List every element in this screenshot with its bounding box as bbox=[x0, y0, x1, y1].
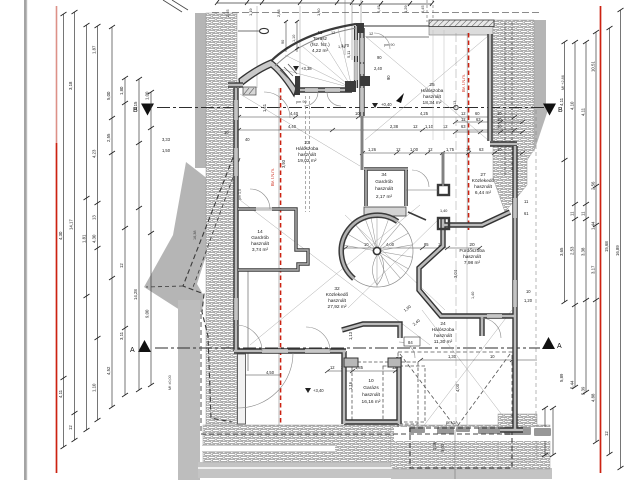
axis companion line west bbox=[278, 88, 280, 425]
right dim labels bbox=[540, 61, 621, 440]
dashed terrain line west bbox=[183, 150, 236, 422]
svg-text:10: 10 bbox=[368, 378, 374, 384]
diagonal room 24 bbox=[422, 310, 512, 428]
svg-text:1,70: 1,70 bbox=[341, 43, 350, 48]
svg-text:+3,40: +3,40 bbox=[313, 388, 324, 393]
svg-text:5,44: 5,44 bbox=[570, 380, 575, 389]
svg-text:Fürdőszoba: Fürdőszoba bbox=[459, 248, 485, 254]
landing slab bbox=[364, 207, 406, 216]
rotated interior dims bbox=[262, 75, 460, 452]
svg-text:16,16 m²: 16,16 m² bbox=[362, 399, 381, 405]
svg-text:4,11: 4,11 bbox=[559, 97, 564, 106]
top dim labels bbox=[225, 5, 425, 58]
balcony slab top-right bbox=[429, 26, 493, 35]
svg-text:5,00: 5,00 bbox=[106, 91, 111, 100]
svg-text:4,22 m²: 4,22 m² bbox=[312, 48, 329, 54]
svg-text:84: 84 bbox=[408, 340, 413, 345]
svg-text:Bv. I.N.m.: Bv. I.N.m. bbox=[461, 74, 466, 92]
left dim labels bbox=[58, 45, 150, 430]
terrain strip bottom-left bbox=[178, 300, 200, 480]
svg-text:14,17: 14,17 bbox=[69, 219, 74, 230]
terrain strip top-right bbox=[534, 20, 549, 152]
svg-text:2,17 m²: 2,17 m² bbox=[376, 194, 393, 200]
interior chain ticks bbox=[236, 115, 525, 373]
chain x248 room32 vertical bbox=[247, 270, 249, 371]
svg-text:11,30 m²: 11,30 m² bbox=[434, 339, 453, 345]
door arc room25 nw bbox=[374, 33, 390, 49]
svg-text:24: 24 bbox=[440, 321, 446, 327]
dim line R7 short bbox=[544, 408, 546, 455]
dim line R1 bbox=[564, 42, 566, 302]
svg-text:1,15: 1,15 bbox=[133, 101, 138, 110]
dim line L2 bbox=[74, 12, 76, 440]
erased band bottom bbox=[394, 427, 551, 441]
dim line L5 bbox=[111, 27, 113, 407]
svg-text:2,36: 2,36 bbox=[432, 441, 437, 450]
svg-text:2,53: 2,53 bbox=[570, 246, 575, 255]
svg-text:25: 25 bbox=[429, 82, 435, 88]
chain y117 bbox=[238, 116, 515, 118]
door arc room34 bbox=[412, 170, 429, 187]
svg-text:4,40: 4,40 bbox=[290, 111, 299, 116]
svg-text:12: 12 bbox=[461, 117, 466, 122]
svg-text:használt: használt bbox=[362, 392, 381, 398]
terrace railing arc bbox=[271, 24, 356, 61]
svg-text:4,00: 4,00 bbox=[386, 242, 395, 247]
svg-text:1,40: 1,40 bbox=[316, 8, 321, 16]
svg-text:1,81: 1,81 bbox=[82, 234, 87, 243]
svg-text:1,50: 1,50 bbox=[162, 148, 171, 153]
svg-text:használt: használt bbox=[328, 298, 347, 304]
svg-text:3,65: 3,65 bbox=[559, 247, 564, 256]
terrain strip top-left bbox=[195, 13, 207, 168]
svg-text:1,40: 1,40 bbox=[440, 209, 447, 213]
svg-text:1,30: 1,30 bbox=[448, 354, 457, 359]
stair treads bbox=[342, 215, 413, 287]
svg-text:3,93: 3,93 bbox=[281, 159, 286, 168]
chain y146 bbox=[362, 152, 523, 154]
svg-text:B: B bbox=[558, 107, 563, 114]
svg-text:32: 32 bbox=[334, 286, 340, 292]
dim line R4 bbox=[595, 32, 597, 442]
stair winder curve bbox=[373, 255, 384, 285]
wall network outer dark bbox=[234, 28, 523, 430]
svg-text:A: A bbox=[557, 343, 562, 350]
corner diagonal marks top-left bbox=[163, 0, 182, 12]
svg-text:10: 10 bbox=[526, 289, 531, 294]
svg-text:90: 90 bbox=[386, 75, 391, 80]
section line A-A bbox=[155, 347, 540, 349]
svg-text:1,00: 1,00 bbox=[410, 147, 419, 152]
svg-text:63: 63 bbox=[476, 117, 481, 122]
column block west wall room25 bbox=[360, 76, 370, 86]
svg-text:3,11: 3,11 bbox=[119, 331, 124, 340]
svg-text:4,52: 4,52 bbox=[106, 366, 111, 375]
svg-text:63: 63 bbox=[461, 124, 466, 129]
dashed projection top right bbox=[426, 0, 428, 22]
dim line R6 bbox=[620, 10, 622, 468]
mini vertical dims terrace bbox=[285, 21, 287, 52]
foundation white band bottom-left bbox=[202, 445, 335, 452]
svg-text:0,45: 0,45 bbox=[376, 5, 381, 13]
svg-text:12: 12 bbox=[369, 32, 373, 36]
top dim line 2 bbox=[352, 3, 432, 5]
svg-text:1,41: 1,41 bbox=[262, 103, 267, 112]
white split line in gray band bbox=[198, 467, 392, 469]
dashed foundation outline bbox=[201, 314, 513, 434]
svg-text:16,38: 16,38 bbox=[193, 230, 197, 240]
level mark room23 bbox=[372, 103, 378, 108]
svg-text:Terasz: Terasz bbox=[313, 36, 328, 42]
svg-text:61: 61 bbox=[524, 211, 529, 216]
dim line R5 bbox=[609, 28, 611, 454]
axis companion line east bbox=[466, 33, 468, 230]
svg-text:1,40: 1,40 bbox=[471, 292, 475, 299]
svg-text:A: A bbox=[130, 347, 135, 354]
dim line L7 bbox=[138, 79, 140, 390]
svg-text:5,00: 5,00 bbox=[440, 443, 445, 452]
hatch band bottom right bbox=[391, 425, 550, 469]
svg-text:Hálószoba: Hálószoba bbox=[421, 88, 444, 94]
svg-text:1,20: 1,20 bbox=[524, 298, 533, 303]
post connector line bbox=[406, 189, 438, 191]
door post hall bbox=[438, 218, 449, 229]
hatch band left bbox=[206, 13, 237, 425]
svg-text:használt: használt bbox=[463, 254, 482, 260]
svg-text:63: 63 bbox=[479, 147, 484, 152]
svg-text:5,89: 5,89 bbox=[559, 373, 564, 382]
svg-text:1,10: 1,10 bbox=[425, 124, 434, 129]
stair hub bbox=[373, 247, 380, 254]
window block north wall bbox=[243, 87, 256, 95]
diagonal room 32 bbox=[240, 200, 430, 345]
svg-text:Mf +2,86: Mf +2,86 bbox=[561, 75, 565, 90]
svg-text:20: 20 bbox=[469, 242, 475, 248]
stair wall arc bbox=[341, 215, 397, 278]
svg-text:7,98 m²: 7,98 m² bbox=[464, 260, 481, 266]
svg-text:1,44: 1,44 bbox=[591, 221, 596, 230]
svg-text:13: 13 bbox=[92, 215, 97, 220]
construction vertical x453 bbox=[455, 33, 457, 430]
svg-text:4,11: 4,11 bbox=[58, 389, 63, 398]
svg-text:1,75: 1,75 bbox=[446, 147, 455, 152]
svg-text:10: 10 bbox=[497, 124, 502, 129]
wall network inner light bbox=[234, 28, 523, 430]
red margin line left lower bbox=[56, 143, 58, 473]
svg-text:10: 10 bbox=[497, 111, 502, 116]
roof overhang dashed line top bbox=[212, 12, 540, 14]
svg-text:4,30: 4,30 bbox=[58, 231, 63, 240]
svg-text:3,04: 3,04 bbox=[453, 269, 458, 278]
svg-text:2,40: 2,40 bbox=[374, 66, 383, 71]
svg-text:pm 1A: pm 1A bbox=[446, 420, 458, 425]
dim line R2 bbox=[574, 42, 576, 387]
top dim line 1 bbox=[217, 2, 352, 4]
svg-text:2,88: 2,88 bbox=[276, 9, 281, 17]
svg-text:40: 40 bbox=[245, 137, 250, 142]
svg-text:1,80: 1,80 bbox=[119, 86, 124, 95]
terrace east wall bbox=[354, 26, 358, 88]
svg-text:12: 12 bbox=[68, 425, 73, 430]
svg-text:14: 14 bbox=[257, 229, 263, 235]
svg-text:Bv. I.N.m.: Bv. I.N.m. bbox=[270, 168, 275, 186]
dim line L4 bbox=[97, 26, 99, 420]
svg-text:12: 12 bbox=[396, 147, 401, 152]
svg-text:használt: használt bbox=[375, 186, 394, 192]
plate 84 bbox=[404, 337, 420, 346]
svg-text:23: 23 bbox=[304, 140, 310, 146]
svg-text:1,13: 1,13 bbox=[348, 331, 353, 340]
dim line L3 bbox=[86, 25, 88, 430]
corner post room25 nw bbox=[356, 23, 364, 33]
svg-text:12: 12 bbox=[119, 263, 124, 268]
svg-text:60: 60 bbox=[475, 111, 480, 116]
pergola dashed outline bottom bbox=[398, 352, 512, 432]
diagonal room 23 bbox=[240, 94, 360, 166]
interior dim numbers bbox=[266, 111, 533, 375]
svg-text:2,56: 2,56 bbox=[591, 181, 596, 190]
wall stub north of scallop bbox=[228, 82, 243, 87]
svg-text:2,55: 2,55 bbox=[106, 133, 111, 142]
svg-text:Közlekedő: Közlekedő bbox=[326, 292, 349, 298]
dashed projection right bbox=[535, 110, 537, 455]
riser x257 bbox=[256, 6, 258, 88]
svg-text:3,74 m²: 3,74 m² bbox=[252, 247, 269, 253]
svg-text:(fsz. fsz.): (fsz. fsz.) bbox=[310, 42, 330, 48]
top risers bbox=[345, 0, 361, 60]
svg-text:2,38: 2,38 bbox=[390, 124, 399, 129]
fence wall west below bbox=[238, 354, 246, 424]
hall diagonals bbox=[345, 215, 445, 310]
chain y122/132/152 right bbox=[455, 121, 523, 123]
terrain band bottom right bbox=[391, 468, 552, 479]
svg-text:Gardrób: Gardrób bbox=[251, 235, 269, 241]
svg-text:1,26: 1,26 bbox=[368, 147, 377, 152]
svg-text:3,18: 3,18 bbox=[68, 81, 73, 90]
svg-text:10: 10 bbox=[490, 354, 495, 359]
ramp dashed rect bottom bbox=[410, 428, 512, 468]
chain y360 bottom bbox=[420, 359, 537, 361]
svg-text:pm 90: pm 90 bbox=[296, 100, 307, 104]
svg-text:18,34 m²: 18,34 m² bbox=[423, 100, 442, 106]
svg-text:27,92 m²: 27,92 m² bbox=[328, 304, 347, 310]
svg-text:5,11: 5,11 bbox=[346, 51, 351, 58]
dashed terrain line west inner bbox=[192, 158, 240, 290]
svg-text:4,25: 4,25 bbox=[420, 111, 429, 116]
svg-text:11: 11 bbox=[524, 199, 529, 204]
post right of wing bbox=[295, 76, 300, 95]
svg-text:10: 10 bbox=[497, 117, 502, 122]
partition room27 west bbox=[442, 152, 445, 186]
svg-text:használt: használt bbox=[434, 333, 453, 339]
dashed wall projection in right hatch bbox=[504, 22, 506, 175]
svg-text:9,00: 9,00 bbox=[145, 309, 150, 318]
tick marks left block bbox=[61, 10, 155, 449]
dashed shaft lines room23 bbox=[305, 96, 307, 212]
red margin line right bbox=[600, 6, 602, 473]
stair outer circle bbox=[341, 215, 413, 287]
garage door piers bbox=[344, 358, 358, 367]
svg-text:használt: használt bbox=[251, 241, 270, 247]
section marker A left bbox=[138, 340, 151, 352]
room 14 walls bbox=[238, 209, 308, 270]
axis circle on B line bbox=[454, 105, 458, 109]
diagonal room 25 bbox=[365, 36, 488, 140]
section marker B left bbox=[141, 104, 154, 116]
tick marks right block bbox=[542, 8, 624, 470]
car dashed outline garage bbox=[352, 362, 425, 424]
door post hall upper bbox=[438, 185, 449, 195]
svg-text:Garázs: Garázs bbox=[363, 385, 379, 391]
svg-text:15,68: 15,68 bbox=[604, 241, 609, 252]
svg-text:3,33: 3,33 bbox=[162, 137, 171, 142]
svg-text:+0,40: +0,40 bbox=[381, 102, 392, 107]
hatch patch bottom-right bbox=[498, 414, 537, 460]
svg-text:11: 11 bbox=[581, 211, 586, 216]
corner post terrace bbox=[345, 81, 356, 92]
svg-text:4,50: 4,50 bbox=[266, 370, 275, 375]
chain y371 garage bbox=[327, 370, 400, 372]
svg-text:2,45: 2,45 bbox=[225, 9, 230, 17]
svg-text:90: 90 bbox=[281, 40, 285, 44]
chain y248 stair bbox=[345, 247, 480, 249]
terrain band bottom left bbox=[198, 462, 392, 478]
svg-text:használt: használt bbox=[474, 184, 493, 190]
NE stair diagonal wall bbox=[408, 212, 426, 220]
svg-text:3,38: 3,38 bbox=[581, 247, 586, 256]
terrain wedge mid-left bbox=[144, 162, 229, 312]
svg-text:használt: használt bbox=[423, 94, 442, 100]
red margin line left bbox=[56, 6, 58, 143]
chain y375 lower room bbox=[243, 374, 281, 376]
svg-text:19,02 m²: 19,02 m² bbox=[298, 158, 317, 164]
level mark +3,38 bbox=[293, 66, 299, 71]
section marker B right bbox=[543, 104, 556, 116]
svg-text:11: 11 bbox=[570, 211, 575, 216]
dim line R3 bbox=[585, 42, 587, 392]
svg-text:16,89: 16,89 bbox=[615, 245, 620, 256]
svg-text:4,10: 4,10 bbox=[570, 101, 575, 110]
svg-text:12: 12 bbox=[331, 31, 335, 35]
svg-text:10: 10 bbox=[497, 147, 502, 152]
svg-text:10: 10 bbox=[224, 130, 229, 135]
svg-text:4,30: 4,30 bbox=[92, 234, 97, 243]
hatched north wall bbox=[429, 20, 494, 27]
svg-text:1,13: 1,13 bbox=[453, 101, 457, 108]
svg-text:1,10: 1,10 bbox=[92, 383, 97, 392]
oval connector line bbox=[238, 30, 259, 32]
svg-text:Gardrób: Gardrób bbox=[375, 179, 393, 185]
svg-text:90: 90 bbox=[377, 55, 382, 60]
svg-text:6,44 m²: 6,44 m² bbox=[475, 190, 492, 196]
stamp glyphs bbox=[409, 427, 551, 436]
svg-text:Hálószoba: Hálószoba bbox=[296, 146, 319, 152]
svg-text:11: 11 bbox=[318, 30, 323, 36]
terrace fan lines bbox=[270, 29, 352, 88]
svg-text:12: 12 bbox=[466, 147, 471, 152]
projection verticals room25 bbox=[432, 30, 434, 140]
svg-text:12: 12 bbox=[461, 111, 466, 116]
dim line L1 bbox=[63, 14, 65, 447]
svg-text:34: 34 bbox=[381, 172, 387, 178]
section line B-B bbox=[157, 107, 545, 109]
bottom axis line bbox=[454, 430, 456, 479]
svg-text:1,10: 1,10 bbox=[292, 35, 296, 42]
svg-text:0,45: 0,45 bbox=[420, 5, 425, 13]
svg-text:4,40: 4,40 bbox=[288, 124, 297, 129]
svg-text:4,88: 4,88 bbox=[591, 393, 596, 402]
svg-text:4,11: 4,11 bbox=[581, 107, 586, 116]
svg-text:+3,38: +3,38 bbox=[301, 66, 312, 71]
svg-text:27: 27 bbox=[480, 172, 486, 178]
partition room23 east bbox=[361, 116, 364, 170]
north mark bbox=[396, 93, 404, 103]
svg-text:1,29: 1,29 bbox=[403, 5, 408, 13]
dim line L6 bbox=[124, 78, 126, 395]
wing hatch ticks bbox=[280, 64, 297, 78]
svg-text:85: 85 bbox=[424, 242, 429, 247]
chain y130 bbox=[238, 129, 515, 131]
svg-text:10,51: 10,51 bbox=[591, 61, 596, 72]
level mark +3,40 bbox=[305, 388, 311, 393]
svg-text:12: 12 bbox=[428, 147, 433, 152]
svg-text:12: 12 bbox=[413, 124, 418, 129]
svg-text:Közlekedő: Közlekedő bbox=[472, 178, 495, 184]
room25 north wall thin double bbox=[358, 25, 429, 27]
hatch band right bbox=[493, 20, 534, 212]
hatch band bottom left bbox=[203, 425, 391, 462]
svg-text:4,23: 4,23 bbox=[92, 149, 97, 158]
wing wall terrace bbox=[239, 60, 296, 96]
svg-text:5,39: 5,39 bbox=[581, 386, 586, 395]
svg-text:14,28: 14,28 bbox=[133, 289, 138, 300]
svg-text:3,17: 3,17 bbox=[591, 265, 596, 274]
section marker A right bbox=[542, 337, 555, 349]
room 34 walls bbox=[364, 169, 408, 206]
svg-text:12: 12 bbox=[330, 365, 335, 370]
svg-text:Mf ±0,00: Mf ±0,00 bbox=[168, 375, 172, 390]
dim line L8 bbox=[150, 92, 152, 385]
svg-text:1,87: 1,87 bbox=[92, 45, 97, 54]
svg-text:12: 12 bbox=[604, 431, 609, 436]
site boundary line left bbox=[24, 0, 26, 480]
svg-text:használt: használt bbox=[298, 152, 317, 158]
dashed terrain tip bbox=[146, 286, 183, 287]
riser x300 bbox=[299, 6, 301, 90]
svg-text:1,00: 1,00 bbox=[145, 91, 150, 100]
construction vertical x467 low bbox=[466, 230, 468, 428]
svg-text:Hálószoba: Hálószoba bbox=[432, 327, 455, 333]
terrace oval symbol bbox=[260, 28, 269, 33]
